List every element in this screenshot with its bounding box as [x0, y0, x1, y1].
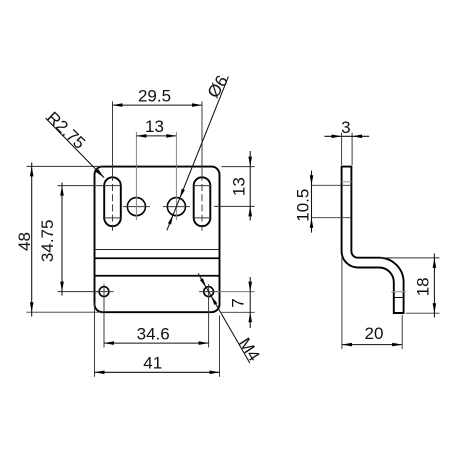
- svg-text:Ø6: Ø6: [204, 72, 232, 101]
- dimension 13 right side: [214, 151, 255, 221]
- svg-text:3: 3: [341, 118, 350, 137]
- label Ø6: [204, 72, 232, 101]
- side view hole edge line: [394, 297, 404, 299]
- right M4 hole: [204, 287, 214, 297]
- middle bend line: [95, 257, 220, 259]
- dimension 13 top: [136, 117, 176, 138]
- M4 leader line: [198, 273, 250, 363]
- label R2.75: [43, 108, 89, 153]
- left slot centerline: [103, 174, 122, 231]
- svg-text:34.6: 34.6: [137, 324, 170, 343]
- svg-text:41: 41: [143, 353, 162, 372]
- dimension 29.5 top: [113, 86, 203, 175]
- svg-text:7: 7: [229, 298, 248, 307]
- side view hole centerline: [391, 291, 406, 293]
- svg-text:29.5: 29.5: [138, 86, 171, 105]
- left Ø6 hole: [127, 198, 145, 216]
- right Ø6 hole crosshair: [163, 132, 190, 220]
- svg-text:13: 13: [145, 117, 164, 136]
- right Ø6 hole: [167, 198, 185, 216]
- upper bend line: [95, 249, 220, 251]
- svg-text:13: 13: [229, 177, 248, 196]
- R2.75 leader line: [46, 118, 105, 178]
- svg-text:20: 20: [365, 324, 384, 343]
- left Ø6 hole crosshair: [123, 132, 150, 220]
- svg-text:R2.75: R2.75: [43, 108, 89, 153]
- side view slot mark: [342, 181, 352, 183]
- dimension 20 bottom: [342, 256, 402, 349]
- lower bend line: [95, 275, 220, 277]
- svg-text:34.75: 34.75: [38, 220, 57, 263]
- label M4: [235, 335, 264, 365]
- right M4 hole crosshair: [199, 284, 218, 299]
- left M4 hole crosshair: [95, 284, 114, 299]
- left slot outline: [104, 177, 121, 226]
- dimension 10.5 left: [294, 171, 352, 233]
- svg-text:48: 48: [15, 232, 34, 251]
- Ø6 leader line: [167, 77, 229, 231]
- dimension 34.75 left: [38, 183, 104, 296]
- dimension 34.6 bottom: [104, 298, 209, 348]
- bracket front view plate outline: [95, 167, 220, 313]
- svg-text:10.5: 10.5: [294, 189, 313, 222]
- bracket side view outline: [342, 167, 404, 313]
- dimension 7 right: [218, 277, 255, 328]
- dimension 48 left: [15, 163, 103, 317]
- right slot outline: [194, 177, 211, 226]
- dimension 18 right: [380, 254, 440, 318]
- svg-text:M4: M4: [235, 335, 264, 365]
- left M4 hole: [99, 287, 109, 297]
- dimension 3 top: [325, 118, 370, 165]
- svg-text:18: 18: [414, 277, 433, 296]
- dimension 41 bottom: [95, 303, 220, 377]
- right slot centerline: [193, 174, 212, 231]
